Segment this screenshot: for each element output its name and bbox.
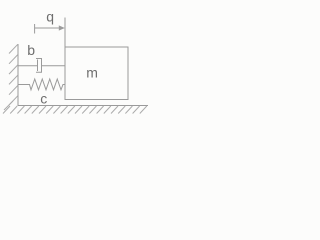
ground hatching (3, 106, 147, 114)
damper cylinder (36, 59, 42, 73)
damper piston (37, 60, 39, 72)
mass box m (65, 47, 128, 100)
ground (18, 105, 149, 107)
spring c (18, 79, 65, 90)
wall hatching (4, 44, 18, 110)
wall (17, 44, 19, 106)
svg-text:b: b (27, 42, 35, 58)
damper rod left (wall to piston) (18, 65, 38, 67)
svg-text:m: m (86, 64, 98, 80)
svg-text:c: c (40, 90, 47, 106)
reference line on mass (64, 18, 66, 48)
arrow q tick (34, 24, 36, 34)
arrow q (35, 25, 65, 30)
damper rod right (cylinder to mass) (42, 65, 66, 67)
svg-text:q: q (46, 8, 54, 24)
